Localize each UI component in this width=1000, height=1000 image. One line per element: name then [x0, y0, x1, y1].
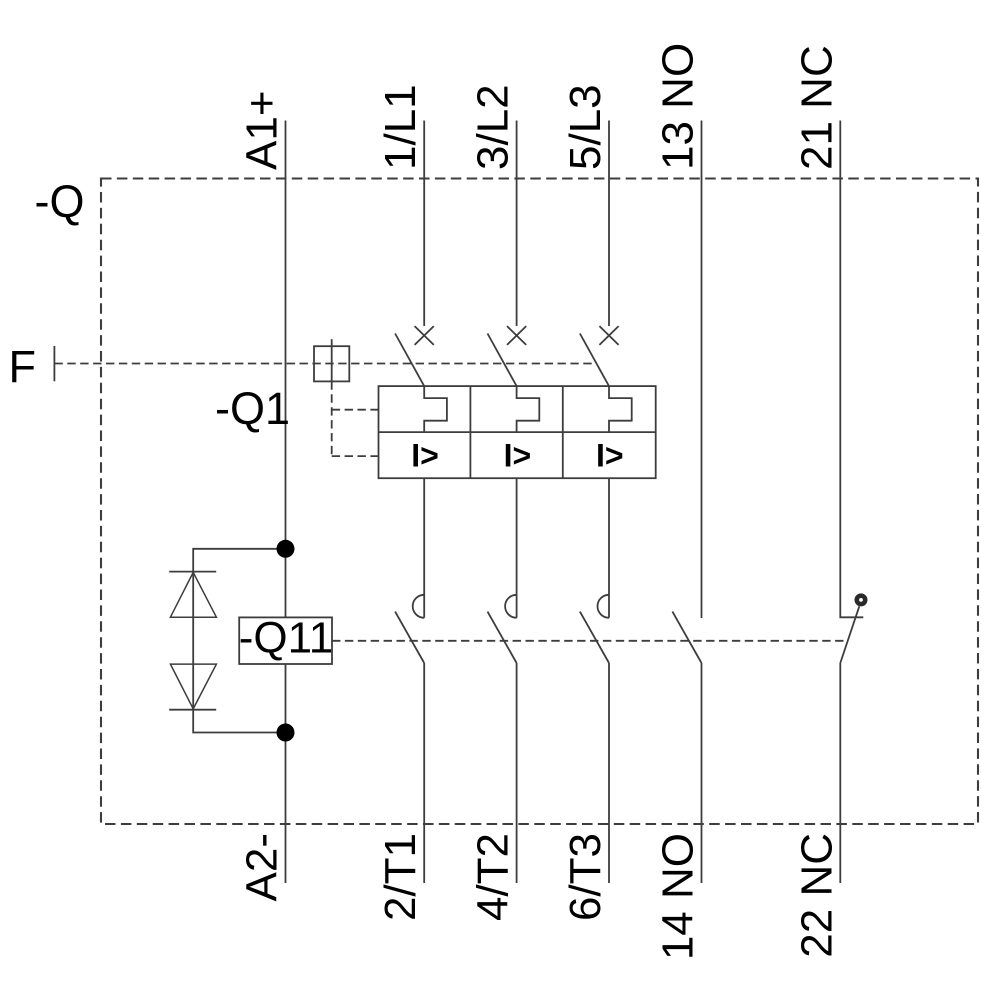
- junction dot upper: [277, 540, 295, 558]
- contact blade pole 3: [580, 612, 609, 663]
- wire between diodes: [192, 572, 194, 710]
- trip unit row divider: [379, 431, 656, 433]
- breaker trip unit box -Q1: [379, 386, 656, 478]
- wire suppressor branch bottom: [193, 710, 285, 733]
- svg-text:F: F: [9, 341, 37, 392]
- contact blade aux NC: [840, 606, 859, 663]
- thermal latch symbol pole 1: [424, 386, 447, 432]
- wire aux 21 upper with NC seat: [840, 121, 863, 618]
- manual operator stem: [331, 339, 333, 381]
- NC positively driven indicator ring: [857, 596, 865, 604]
- svg-text:2/T1: 2/T1: [376, 833, 425, 921]
- svg-text:-Q11: -Q11: [239, 614, 334, 663]
- diode V2 triangle: [170, 664, 216, 709]
- contactor arc pole 3: [598, 595, 610, 618]
- wire A1 vertical conductor: [285, 121, 287, 884]
- svg-text:-Q1: -Q1: [215, 383, 290, 434]
- wire pole L2 middle: [516, 478, 518, 618]
- wire pole T1 lower: [423, 663, 425, 883]
- svg-text:22 NC: 22 NC: [792, 833, 841, 958]
- wire suppressor branch top: [193, 549, 285, 572]
- contact blade pole 2: [488, 612, 517, 663]
- wire pole L3 middle: [608, 478, 610, 618]
- wire aux 14 lower: [701, 663, 703, 883]
- svg-text:A2-: A2-: [238, 833, 287, 901]
- trip unit column divider 2: [562, 386, 564, 478]
- wire aux 22 lower: [839, 663, 841, 883]
- diode V1 cathode bar: [169, 571, 216, 573]
- svg-text:I>: I>: [596, 438, 624, 474]
- svg-text:-Q: -Q: [35, 176, 85, 227]
- svg-text:6/T3: 6/T3: [561, 833, 610, 921]
- dashed link stub to thermal row: [332, 409, 379, 411]
- breaker blade pole 2: [488, 334, 517, 387]
- wire pole T3 lower: [608, 663, 610, 883]
- contact blade pole 1: [395, 612, 424, 663]
- thermal latch symbol pole 3: [609, 386, 632, 432]
- junction dot lower: [277, 724, 295, 742]
- dashed link square to trip units vertical: [331, 381, 333, 456]
- svg-text:3/L2: 3/L2: [469, 84, 518, 170]
- diode V1 triangle: [170, 572, 216, 617]
- svg-text:A1+: A1+: [238, 90, 287, 170]
- enclosure dashed border -Q: [101, 179, 978, 825]
- contactor arc pole 1: [413, 595, 424, 618]
- manual operator square: [314, 346, 349, 381]
- breaker function cross X pole 2: [507, 326, 526, 345]
- trip actuation dashed line from F: [54, 363, 592, 365]
- diode V2 cathode bar: [169, 709, 216, 711]
- wire pole L1 upper: [423, 121, 425, 327]
- manual operator terminal tick F: [53, 346, 55, 381]
- wire pole T2 lower: [516, 663, 518, 883]
- breaker blade pole 1: [395, 334, 424, 387]
- wire pole L3 upper: [608, 121, 610, 327]
- breaker function cross X pole 3: [599, 326, 618, 345]
- svg-text:5/L3: 5/L3: [561, 84, 610, 170]
- coil actuation dashed line -Q11: [332, 640, 846, 642]
- contact blade aux NO: [672, 612, 701, 663]
- svg-text:1/L1: 1/L1: [376, 84, 425, 170]
- thermal latch symbol pole 2: [517, 386, 540, 432]
- contactor coil box -Q11: [239, 617, 332, 664]
- svg-text:4/T2: 4/T2: [469, 833, 518, 921]
- wire pole L2 upper: [516, 121, 518, 327]
- wire pole L1 middle: [423, 478, 425, 618]
- svg-text:I>: I>: [411, 438, 439, 474]
- svg-text:I>: I>: [504, 438, 532, 474]
- breaker function cross X pole 1: [415, 326, 434, 345]
- dashed link stub to magnetic row: [332, 455, 379, 457]
- svg-text:13 NO: 13 NO: [654, 43, 703, 170]
- svg-text:21 NC: 21 NC: [792, 45, 841, 170]
- breaker blade pole 3: [580, 334, 609, 387]
- trip unit column divider 1: [469, 386, 471, 478]
- wire aux 13 upper: [701, 121, 703, 619]
- svg-text:14 NO: 14 NO: [654, 833, 703, 960]
- contactor arc pole 2: [505, 595, 517, 618]
